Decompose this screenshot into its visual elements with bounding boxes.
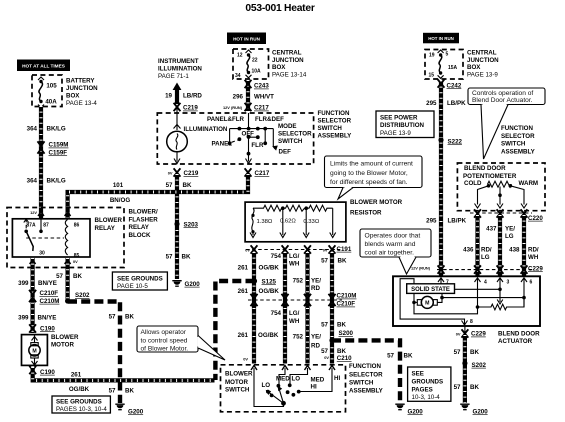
svg-text:BK: BK <box>337 321 346 328</box>
splice S202 (right) <box>462 361 486 369</box>
svg-text:1.38Ω: 1.38Ω <box>256 219 272 225</box>
potentiometer <box>475 181 528 208</box>
svg-text:12V (RUN): 12V (RUN) <box>223 105 243 110</box>
svg-text:BK: BK <box>125 388 134 395</box>
svg-text:754: 754 <box>271 310 282 317</box>
splice S203 <box>174 221 198 228</box>
svg-text:HI: HI <box>334 375 340 382</box>
svg-text:261: 261 <box>238 332 249 339</box>
svg-text:DISTRIBUTION: DISTRIBUTION <box>380 122 425 129</box>
svg-text:BK: BK <box>470 349 479 356</box>
svg-text:ILLUMINATION: ILLUMINATION <box>158 65 202 72</box>
speech bubble: Limits the amount of current <box>325 156 423 199</box>
svg-text:BK: BK <box>404 353 413 360</box>
wire B 754 LG/WH <box>283 252 287 364</box>
blower motor <box>29 335 40 366</box>
relay exit arrows <box>30 260 36 265</box>
SEE POWER DISTRIBUTION box <box>376 111 434 138</box>
svg-text:BK: BK <box>470 384 479 391</box>
svg-text:C217: C217 <box>255 170 270 177</box>
svg-text:of Blower Motor.: of Blower Motor. <box>141 346 189 353</box>
svg-text:261: 261 <box>238 288 249 295</box>
blower motor box <box>22 335 48 366</box>
svg-text:PAGE 71-1: PAGE 71-1 <box>158 73 189 80</box>
wire 399 BN/YE from relay pin 30 to blower motor <box>30 258 34 333</box>
label BLEND DOOR ACTUATOR <box>498 330 540 345</box>
svg-text:8: 8 <box>470 319 473 325</box>
svg-text:LG/: LG/ <box>289 253 300 260</box>
svg-text:Controls operation of: Controls operation of <box>472 90 533 97</box>
header HOT IN RUN <box>227 33 266 45</box>
svg-text:261: 261 <box>71 372 82 379</box>
svg-text:RD: RD <box>311 285 320 292</box>
svg-text:15: 15 <box>429 72 435 78</box>
entry arrows into relay block <box>38 212 44 217</box>
svg-text:BLOWER: BLOWER <box>51 334 79 341</box>
svg-text:SWITCH: SWITCH <box>225 387 250 394</box>
fuse 15A <box>438 50 444 78</box>
svg-text:JUNCTION: JUNCTION <box>66 85 98 92</box>
fuse 105 40A <box>38 77 44 108</box>
svg-text:57: 57 <box>387 353 394 360</box>
svg-text:BLOWER: BLOWER <box>95 217 123 224</box>
svg-text:BLOWER MOTOR: BLOWER MOTOR <box>350 199 403 206</box>
svg-text:SEE GROUNDS: SEE GROUNDS <box>56 399 102 406</box>
svg-text:FLR: FLR <box>251 142 264 149</box>
connector C242 <box>438 79 462 89</box>
svg-text:C242: C242 <box>447 82 462 89</box>
svg-text:MOTOR: MOTOR <box>225 379 248 386</box>
svg-text:22: 22 <box>252 57 258 63</box>
svg-text:34: 34 <box>235 73 241 79</box>
svg-text:PAGE 13-14: PAGE 13-14 <box>272 71 307 78</box>
svg-text:C190: C190 <box>40 325 55 332</box>
svg-text:HOT IN RUN: HOT IN RUN <box>233 36 260 41</box>
wire 57 BK from C219 down to G200 <box>175 174 179 279</box>
connector C210F / C210M <box>29 290 59 305</box>
svg-text:C159F: C159F <box>49 149 68 156</box>
svg-text:G200: G200 <box>128 408 144 415</box>
svg-text:SEE: SEE <box>412 370 424 377</box>
splice S125 <box>252 278 277 285</box>
wire 101 BN/OG from C217 to relay pin 86 <box>68 174 248 219</box>
svg-text:Limits the amount of current: Limits the amount of current <box>330 160 413 167</box>
connector C243 <box>245 80 270 90</box>
svg-text:OG/BK: OG/BK <box>259 265 280 272</box>
entry arrows <box>251 366 257 371</box>
svg-text:053-001 Heater: 053-001 Heater <box>245 3 314 14</box>
switch internal wiring <box>254 368 332 407</box>
splice S200 <box>329 330 353 343</box>
dashed wire S125 down to 261 corner <box>215 281 254 380</box>
svg-text:12V: 12V <box>30 210 37 215</box>
header HOT IN RUN <box>423 33 459 44</box>
svg-text:C210F: C210F <box>337 301 356 308</box>
svg-text:BOX: BOX <box>272 64 286 71</box>
svg-text:19: 19 <box>429 52 435 58</box>
svg-text:FUNCTION: FUNCTION <box>318 110 350 117</box>
pot wire 3 438 RD/WH <box>522 215 526 277</box>
svg-text:M: M <box>32 349 36 355</box>
svg-text:GROUNDS: GROUNDS <box>412 378 444 385</box>
svg-text:10-3, 10-4: 10-3, 10-4 <box>412 394 441 401</box>
svg-text:S202: S202 <box>472 362 487 369</box>
svg-text:754: 754 <box>271 253 282 260</box>
svg-text:OG/BK: OG/BK <box>259 288 280 295</box>
svg-text:C219: C219 <box>184 170 199 177</box>
instrument illumination label <box>158 58 202 80</box>
svg-text:295: 295 <box>426 218 437 225</box>
mode selector switch (dashed box) <box>157 113 313 164</box>
svg-text:FUNCTION: FUNCTION <box>501 125 533 132</box>
svg-text:going to the Blower Motor,: going to the Blower Motor, <box>330 170 408 177</box>
svg-text:LB/RD: LB/RD <box>183 93 202 100</box>
svg-text:S202: S202 <box>75 292 90 299</box>
header HOT AT ALL TIMES <box>17 60 70 72</box>
svg-text:LB/PK: LB/PK <box>447 100 466 107</box>
SEE GROUNDS box (bottom middle) <box>408 367 451 401</box>
svg-text:0V: 0V <box>245 248 250 253</box>
svg-text:RD/: RD/ <box>481 247 492 254</box>
svg-text:15A: 15A <box>448 65 458 71</box>
svg-text:CENTRAL: CENTRAL <box>467 50 497 57</box>
ground G200 (bottom middle) <box>395 404 423 415</box>
svg-text:57: 57 <box>321 348 328 355</box>
label FUNCTION SELECTOR SWITCH ASSEMBLY (top) <box>318 110 353 140</box>
svg-text:C219: C219 <box>183 105 198 112</box>
thermal limiter <box>251 208 254 233</box>
svg-text:ACTUATOR: ACTUATOR <box>498 338 533 345</box>
svg-text:SWITCH: SWITCH <box>501 140 526 147</box>
svg-text:RELAY: RELAY <box>95 225 116 232</box>
wire C 752 YE/RD <box>305 252 309 364</box>
svg-text:SEE GROUNDS: SEE GROUNDS <box>117 275 163 282</box>
svg-text:PAGE 10-5: PAGE 10-5 <box>117 283 148 290</box>
label BLOWER MOTOR SWITCH <box>225 371 253 394</box>
svg-text:0V: 0V <box>243 357 248 362</box>
svg-text:399: 399 <box>18 315 29 322</box>
svg-text:LB/PK: LB/PK <box>448 218 467 225</box>
svg-text:BK: BK <box>337 348 346 355</box>
svg-text:OG/BK: OG/BK <box>258 332 279 339</box>
svg-text:ILLUMINATION: ILLUMINATION <box>184 126 228 133</box>
wire C243 to C217 <box>246 80 250 111</box>
fuse 22 10A <box>246 50 252 78</box>
svg-text:105: 105 <box>46 83 57 90</box>
svg-text:LG: LG <box>481 254 490 261</box>
svg-text:87: 87 <box>43 223 49 229</box>
central junction box label <box>272 50 307 79</box>
svg-text:399: 399 <box>18 280 29 287</box>
svg-text:6: 6 <box>530 280 533 286</box>
svg-text:WH: WH <box>289 318 300 325</box>
svg-text:S200: S200 <box>339 330 354 337</box>
ground G200 <box>172 281 200 288</box>
svg-text:OG/BK: OG/BK <box>69 386 90 393</box>
pot wire 2 437 YE/LG <box>498 215 502 277</box>
connector row C191 <box>245 245 352 253</box>
relay pin 87A (dashed stub) <box>24 219 29 233</box>
resistor elements <box>253 205 333 211</box>
connector row C229 <box>437 265 543 273</box>
connector C217 (bottom) <box>245 168 270 177</box>
mode switch contacts <box>228 113 278 164</box>
svg-text:57: 57 <box>166 254 173 261</box>
svg-text:57: 57 <box>109 314 116 321</box>
speech bubble: Allows operator <box>137 326 225 360</box>
svg-text:to control speed: to control speed <box>141 337 188 344</box>
speech bubble: Controls operation <box>468 88 545 159</box>
svg-text:OFF: OFF <box>242 130 255 137</box>
svg-text:12V (RUN): 12V (RUN) <box>411 265 431 270</box>
svg-text:BN/YE: BN/YE <box>38 280 57 287</box>
svg-text:BK: BK <box>183 182 192 189</box>
connector C217 (top) <box>245 103 270 112</box>
svg-text:C210M: C210M <box>337 293 357 300</box>
svg-text:57: 57 <box>454 349 461 356</box>
svg-text:57: 57 <box>166 182 173 189</box>
pin entry arrows <box>438 278 527 307</box>
svg-text:C220: C220 <box>528 215 543 222</box>
svg-text:cool air together.: cool air together. <box>365 249 415 256</box>
svg-text:BK/LG: BK/LG <box>47 126 66 133</box>
svg-text:RESISTOR: RESISTOR <box>350 209 382 216</box>
wire 295 LB/PK from C242 down to actuator <box>439 81 443 277</box>
svg-text:BK/LG: BK/LG <box>47 178 66 185</box>
svg-text:Blend Door Actuator.: Blend Door Actuator. <box>472 97 533 104</box>
label BLOWER/FLASHER RELAY BLOCK <box>129 209 159 239</box>
svg-text:57: 57 <box>321 321 328 328</box>
svg-text:C191: C191 <box>337 246 352 253</box>
svg-text:WARM: WARM <box>519 180 539 187</box>
svg-text:BN/OG: BN/OG <box>110 197 130 204</box>
svg-text:SWITCH: SWITCH <box>278 138 303 145</box>
svg-text:M: M <box>425 301 429 307</box>
svg-text:C210M: C210M <box>40 298 60 305</box>
blower motor resistor box <box>245 202 346 242</box>
svg-text:YE/: YE/ <box>311 278 321 285</box>
speech bubble: Operates door <box>360 229 431 274</box>
svg-text:MODE: MODE <box>278 123 297 130</box>
svg-text:S125: S125 <box>262 278 277 285</box>
svg-text:PAGE 13-4: PAGE 13-4 <box>66 100 97 107</box>
wire 364 BK/LG from battery box to relay <box>39 106 43 219</box>
wire 57 BK from relay pin 85 to S202 <box>65 258 69 301</box>
svg-text:BLEND DOOR: BLEND DOOR <box>498 330 540 337</box>
svg-text:364: 364 <box>27 126 38 133</box>
svg-text:SWITCH: SWITCH <box>349 379 374 386</box>
svg-text:POTENTIOMETER: POTENTIOMETER <box>463 173 517 180</box>
svg-text:JUNCTION: JUNCTION <box>272 57 304 64</box>
svg-text:PANEL&FLR: PANEL&FLR <box>207 116 245 123</box>
svg-text:RD: RD <box>311 342 320 349</box>
splice S202 <box>65 292 90 303</box>
svg-text:57: 57 <box>321 258 328 265</box>
svg-text:57: 57 <box>56 273 63 280</box>
svg-text:HOT IN RUN: HOT IN RUN <box>428 36 454 41</box>
actuator internal wiring <box>400 279 526 325</box>
svg-text:101: 101 <box>113 182 124 189</box>
svg-text:57: 57 <box>454 384 461 391</box>
connector row C210M / C210F <box>248 293 356 308</box>
svg-text:0V: 0V <box>323 248 328 253</box>
central junction box label <box>467 50 499 79</box>
svg-text:ASSEMBLY: ASSEMBLY <box>501 148 536 155</box>
svg-text:295: 295 <box>426 100 437 107</box>
svg-text:437: 437 <box>486 226 497 233</box>
svg-text:MOTOR: MOTOR <box>51 342 74 349</box>
battery junction box label <box>66 78 98 108</box>
connector row C220 <box>470 209 543 222</box>
svg-text:0V: 0V <box>168 171 173 176</box>
svg-text:BK: BK <box>125 314 134 321</box>
label BLOWER RELAY <box>95 217 123 232</box>
svg-text:PANEL: PANEL <box>212 141 233 148</box>
battery junction box (dashed) <box>32 75 62 107</box>
svg-text:40A: 40A <box>45 99 57 106</box>
svg-text:SELECTOR: SELECTOR <box>278 130 312 137</box>
label BLOWER MOTOR RESISTOR <box>350 199 403 217</box>
svg-text:G200: G200 <box>408 408 424 415</box>
svg-text:752: 752 <box>293 278 304 285</box>
relay pin 87 <box>39 219 43 233</box>
ground G200 (bottom right) <box>460 404 488 415</box>
svg-text:C229: C229 <box>471 331 486 338</box>
connector C229 (bottom) <box>456 326 487 338</box>
svg-text:PAGES: PAGES <box>412 386 433 393</box>
svg-text:MED LO: MED LO <box>276 376 300 383</box>
wire D 57 BK <box>330 252 334 364</box>
svg-text:LO: LO <box>262 382 271 389</box>
svg-text:SELECTOR: SELECTOR <box>318 117 352 124</box>
svg-text:for different speeds of fan.: for different speeds of fan. <box>330 179 408 186</box>
SEE GROUNDS PAGE 10-5 box <box>112 272 167 290</box>
svg-text:BN/YE: BN/YE <box>38 315 57 322</box>
dashed wire S200 to G200 <box>332 340 400 403</box>
connector C190 (top) <box>29 324 55 332</box>
svg-text:S222: S222 <box>448 138 463 145</box>
svg-text:PAGE 13-9: PAGE 13-9 <box>467 71 498 78</box>
blower motor switch (dashed box) <box>221 365 346 412</box>
svg-text:COLD: COLD <box>464 180 482 187</box>
svg-text:0V: 0V <box>456 331 461 336</box>
svg-text:C159M: C159M <box>49 142 69 149</box>
blower/flasher relay block (dashed box) <box>7 208 124 268</box>
connector C219 (bottom) <box>168 168 199 177</box>
svg-text:364: 364 <box>27 178 38 185</box>
central junction box (dashed) <box>233 49 269 79</box>
svg-text:436: 436 <box>463 247 474 254</box>
svg-text:WH/VT: WH/VT <box>254 94 274 101</box>
relay coil <box>65 220 67 256</box>
svg-text:SELECTOR: SELECTOR <box>349 371 383 378</box>
svg-text:INSTRUMENT: INSTRUMENT <box>158 58 199 65</box>
svg-text:WH: WH <box>289 260 300 267</box>
svg-text:BK: BK <box>338 258 347 265</box>
svg-text:PAGE 13-9: PAGE 13-9 <box>380 130 411 137</box>
svg-text:S203: S203 <box>184 221 199 228</box>
svg-text:SWITCH: SWITCH <box>318 125 343 132</box>
central junction box 13-9 (dashed) <box>425 50 463 80</box>
svg-text:blends warm and: blends warm and <box>365 241 416 248</box>
svg-text:3: 3 <box>507 280 510 286</box>
svg-text:87A: 87A <box>26 223 36 229</box>
relay mechanical link (dashed) <box>26 237 64 239</box>
svg-text:YE/: YE/ <box>505 226 515 233</box>
svg-text:C190: C190 <box>40 369 55 376</box>
svg-text:438: 438 <box>509 247 520 254</box>
svg-text:LG: LG <box>505 233 514 240</box>
svg-text:86: 86 <box>74 223 80 229</box>
svg-text:C217: C217 <box>254 105 269 112</box>
label BLEND DOOR POTENTIOMETER <box>463 165 517 180</box>
svg-text:BLOWER/: BLOWER/ <box>129 209 158 216</box>
svg-text:PAGES 10-3, 10-4: PAGES 10-3, 10-4 <box>56 406 107 413</box>
label FUNCTION SELECTOR SWITCH ASSEMBLY (bottom) <box>349 363 384 394</box>
svg-text:261: 261 <box>238 265 249 272</box>
svg-text:FLASHER: FLASHER <box>129 216 159 223</box>
wire 57 BK from C229 to G200 <box>463 335 467 403</box>
ground G200 (bottom left) <box>115 404 143 415</box>
blend door actuator box <box>393 276 540 326</box>
svg-text:G200: G200 <box>473 408 489 415</box>
svg-text:BOX: BOX <box>467 64 481 71</box>
svg-text:C229: C229 <box>528 265 543 272</box>
svg-text:YE/: YE/ <box>311 334 321 341</box>
svg-text:RD/: RD/ <box>528 247 539 254</box>
svg-text:BLOWER: BLOWER <box>225 371 253 378</box>
label FUNCTION SELECTOR SWITCH ASSEMBLY (right) <box>501 125 536 155</box>
blend door potentiometer (dashed box) <box>457 163 545 211</box>
actuator motor <box>417 296 437 308</box>
svg-text:296: 296 <box>233 94 244 101</box>
svg-text:G200: G200 <box>185 281 201 288</box>
svg-text:HI: HI <box>311 383 317 390</box>
svg-text:HOT AT ALL TIMES: HOT AT ALL TIMES <box>22 64 65 69</box>
svg-text:30: 30 <box>39 250 45 256</box>
svg-text:SOLID STATE: SOLID STATE <box>411 287 450 293</box>
svg-text:0V: 0V <box>324 355 329 360</box>
svg-text:RELAY: RELAY <box>129 224 150 231</box>
illumination lamp <box>167 109 188 164</box>
label BLOWER MOTOR <box>51 334 79 349</box>
svg-text:LG/: LG/ <box>289 310 300 317</box>
svg-text:752: 752 <box>293 334 304 341</box>
svg-text:BLOCK: BLOCK <box>129 232 152 239</box>
relay switch blade <box>26 231 33 251</box>
svg-text:BATTERY: BATTERY <box>66 78 95 85</box>
wire 261 OG/BK from motor to switch corner <box>33 367 215 380</box>
svg-text:JUNCTION: JUNCTION <box>467 57 499 64</box>
svg-text:BK: BK <box>182 254 191 261</box>
svg-text:Allows operator: Allows operator <box>141 329 187 336</box>
svg-text:57: 57 <box>109 388 116 395</box>
svg-text:12: 12 <box>237 53 243 59</box>
svg-text:Operates door that: Operates door that <box>365 232 421 239</box>
blower relay box <box>12 219 90 257</box>
wire arrow up to instrument illumination <box>173 83 182 105</box>
svg-text:WH: WH <box>528 254 539 261</box>
svg-text:CENTRAL: CENTRAL <box>272 50 302 57</box>
dashed wire S202 to G200 <box>68 302 120 404</box>
svg-text:10A: 10A <box>252 69 262 75</box>
connector C190 (bottom) <box>29 366 55 376</box>
resistor output arrows <box>250 208 336 237</box>
splice S222 <box>438 137 462 145</box>
SEE GROUNDS PAGES 10-3, 10-4 box (left) <box>52 396 110 413</box>
svg-text:BLEND DOOR: BLEND DOOR <box>464 165 506 172</box>
svg-text:BK: BK <box>73 273 82 280</box>
